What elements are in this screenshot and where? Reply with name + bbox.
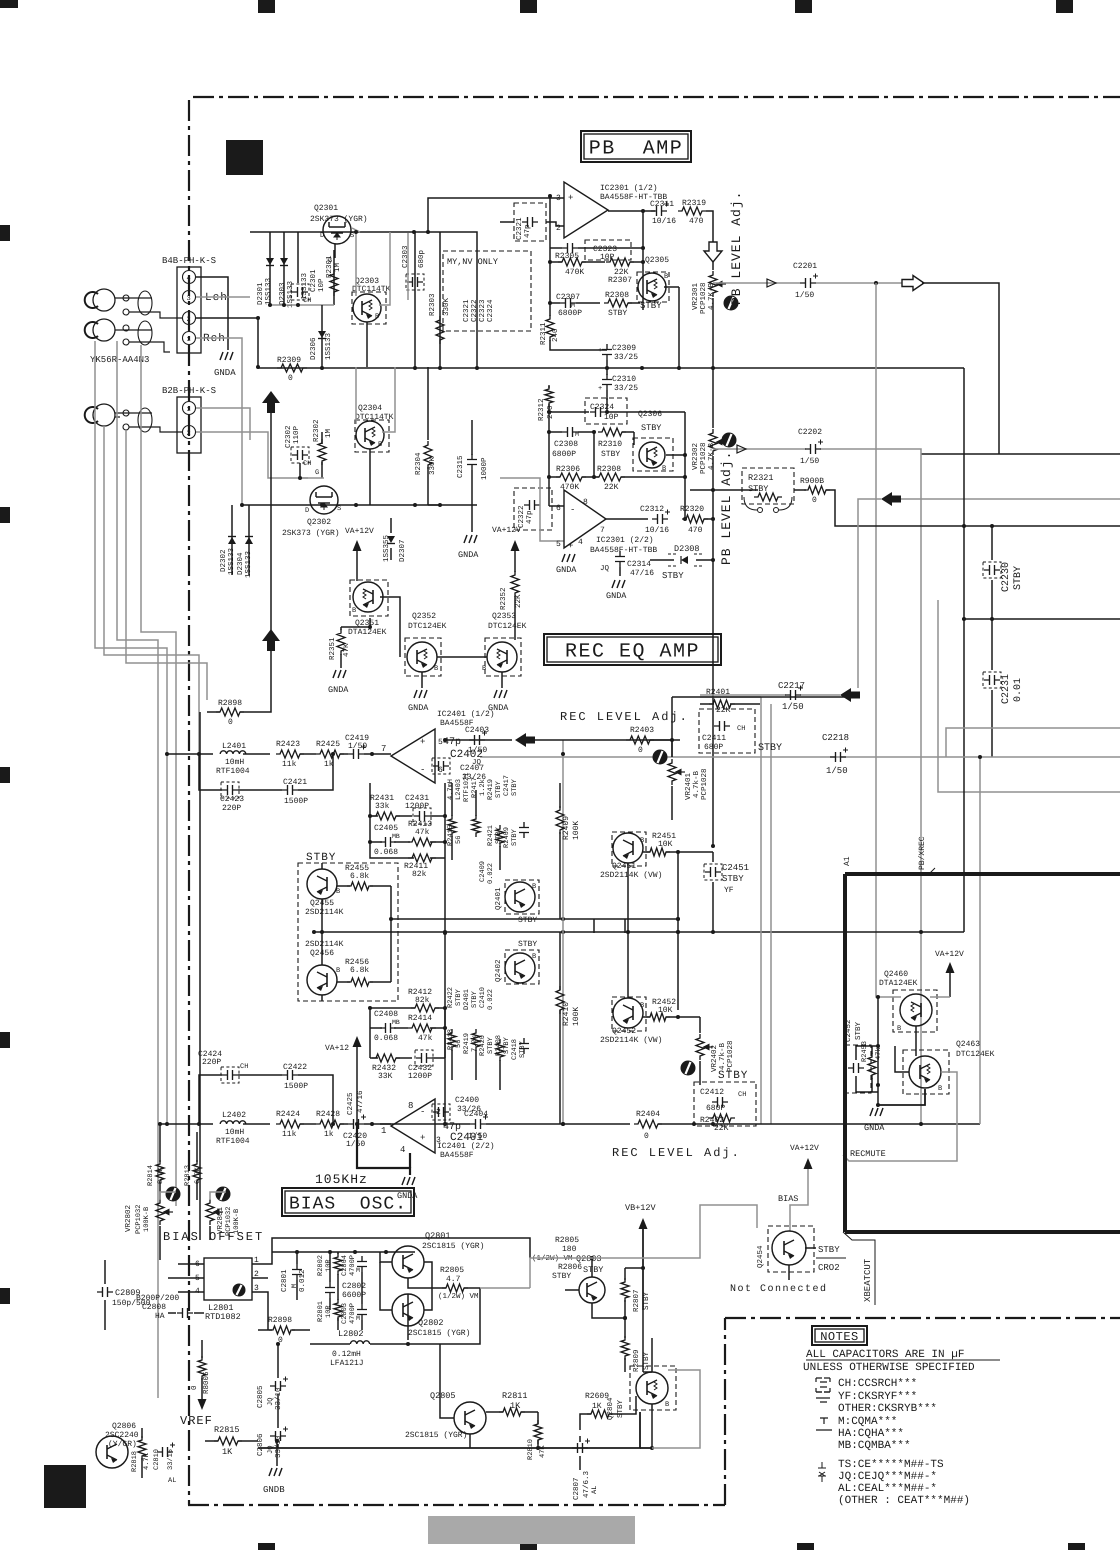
- svg-text:1SS133: 1SS133: [300, 272, 309, 300]
- svg-text:1SS133: 1SS133: [324, 332, 333, 360]
- svg-text:AL: AL: [591, 1486, 599, 1494]
- svg-text:JQ: JQ: [472, 758, 482, 767]
- wire stby pair: [321, 899, 323, 965]
- wire q2463: [915, 1026, 917, 1056]
- svg-text:47K: 47K: [539, 1445, 547, 1458]
- title box REC EQ AMP: [544, 634, 721, 665]
- svg-text:Q2805: Q2805: [430, 1391, 456, 1401]
- svg-text:Not Connected: Not Connected: [730, 1283, 828, 1295]
- svg-text:1/50: 1/50: [348, 742, 367, 751]
- gray footer bar: [428, 1516, 635, 1544]
- svg-text:0.01: 0.01: [1013, 678, 1024, 702]
- ground GNDB: [276, 1448, 278, 1466]
- transistor Q2804: [636, 1372, 668, 1404]
- svg-text:0: 0: [812, 496, 817, 505]
- svg-text:R2805: R2805: [440, 1266, 464, 1275]
- svg-text:VR2401: VR2401: [684, 772, 693, 800]
- svg-text:R2403: R2403: [630, 726, 654, 735]
- svg-text:C2807: C2807: [572, 1477, 581, 1500]
- svg-text:JQ: JQ: [267, 1398, 275, 1406]
- pot VR2802: [156, 1199, 164, 1225]
- svg-text:C2315: C2315: [456, 455, 465, 478]
- svg-text:Q2803: Q2803: [576, 1254, 602, 1264]
- svg-text:STBY: STBY: [511, 828, 519, 846]
- svg-text:C2322: C2322: [470, 299, 479, 322]
- svg-text:B: B: [897, 1025, 901, 1033]
- svg-text:Q2451: Q2451: [612, 862, 636, 871]
- transistor Q2463: [909, 1056, 941, 1088]
- adjust L2801: [233, 1284, 246, 1297]
- svg-text:R900B: R900B: [800, 477, 824, 486]
- svg-text:+: +: [420, 737, 425, 747]
- svg-text:33K: 33K: [378, 1072, 393, 1081]
- wire opamp out: [608, 210, 655, 212]
- svg-text:B: B: [662, 465, 666, 473]
- svg-text:R2302: R2302: [312, 419, 321, 442]
- svg-text:CRO2: CRO2: [818, 1263, 840, 1273]
- wire opamp minus: [546, 222, 564, 226]
- svg-text:PB/XREC: PB/XREC: [918, 836, 927, 870]
- wire fb bus: [369, 783, 371, 855]
- svg-text:0.068: 0.068: [374, 848, 398, 857]
- wire l2801 pins: [178, 1263, 204, 1265]
- pot VR2301: [712, 262, 714, 270]
- svg-text:10/16: 10/16: [652, 217, 676, 226]
- svg-text:R2303: R2303: [428, 293, 437, 316]
- svg-text:PB LEVEL Adj.: PB LEVEL Adj.: [719, 451, 734, 565]
- svg-text:56: 56: [455, 836, 463, 844]
- svg-text:STBY: STBY: [552, 1272, 571, 1281]
- svg-text:R2813: R2813: [184, 1165, 192, 1186]
- cap C2201: [800, 278, 816, 288]
- svg-text:R2810: R2810: [527, 1439, 535, 1460]
- diode D2301: [269, 232, 271, 305]
- cap C2403: [469, 735, 485, 745]
- resistor R2302: [318, 439, 326, 465]
- svg-text:PCP1028: PCP1028: [700, 768, 709, 800]
- wire C2404 row: [380, 1123, 470, 1125]
- svg-text:R2410: R2410: [562, 1002, 571, 1026]
- registration mark bottom 3: [797, 1543, 814, 1550]
- box MY NV ONLY: [443, 251, 531, 331]
- svg-text:220P: 220P: [202, 1058, 221, 1067]
- svg-text:10K: 10K: [658, 840, 673, 849]
- svg-text:CH: CH: [737, 725, 745, 733]
- resistor R2411: [408, 854, 436, 862]
- rot stack res upper: [448, 815, 456, 837]
- svg-text:+: +: [598, 347, 602, 355]
- svg-text:R2814: R2814: [147, 1165, 155, 1186]
- svg-text:GNDA: GNDA: [408, 703, 429, 713]
- svg-text:R2309: R2309: [277, 356, 301, 365]
- svg-text:STBY: STBY: [616, 1399, 625, 1418]
- svg-text:B: B: [378, 441, 382, 449]
- resistor R2319: [678, 207, 706, 215]
- pot VR2401: [668, 759, 676, 785]
- resistor R2310: [598, 428, 626, 436]
- svg-text:M:CQMA***: M:CQMA***: [838, 1416, 897, 1428]
- svg-text:DTC124EK: DTC124EK: [408, 622, 447, 631]
- svg-text:2: 2: [556, 224, 561, 233]
- svg-text:C2805: C2805: [256, 1385, 265, 1408]
- svg-text:B: B: [640, 837, 644, 845]
- svg-text:L2802: L2802: [338, 1329, 364, 1339]
- wire C2202 row: [713, 448, 806, 450]
- svg-text:4.7k-B: 4.7k-B: [718, 1042, 727, 1070]
- svg-text:Q2801: Q2801: [425, 1231, 451, 1241]
- resistor R2311: [549, 310, 551, 316]
- svg-text:1M: 1M: [334, 262, 342, 272]
- diode D2303: [283, 232, 285, 305]
- svg-text:D2302: D2302: [219, 549, 228, 572]
- wire C2403 row: [445, 739, 512, 741]
- svg-text:R2421: R2421: [487, 825, 495, 846]
- svg-text:C2310: C2310: [612, 375, 636, 384]
- wire feedback bundle 2: [117, 341, 158, 1398]
- ground GNDA connector: [220, 352, 233, 360]
- inductor L2402: [220, 1121, 246, 1124]
- resistor R8005: [198, 1356, 206, 1380]
- svg-text:GNDA: GNDA: [328, 685, 349, 695]
- svg-text:C2324: C2324: [486, 299, 495, 322]
- pin 1: [183, 332, 196, 345]
- svg-text:MB: MB: [392, 1019, 400, 1026]
- wire L2402 row: [158, 1123, 213, 1125]
- svg-text:BA4558F: BA4558F: [440, 1151, 474, 1160]
- svg-text:M: M: [356, 1315, 360, 1322]
- svg-text:HA:CQHA***: HA:CQHA***: [838, 1428, 904, 1440]
- svg-text:B: B: [532, 883, 536, 891]
- transistor Q2806: [96, 1436, 128, 1468]
- wire fb col x549: [548, 404, 550, 506]
- svg-text:1/50: 1/50: [826, 766, 848, 776]
- box C2411: [699, 709, 755, 753]
- wire gate row: [270, 304, 334, 306]
- svg-text:R2806: R2806: [558, 1263, 582, 1272]
- resistor R2425: [300, 753, 316, 755]
- junction 526: [962, 524, 966, 528]
- jack lower: [93, 404, 115, 426]
- adjust VR2401: [653, 750, 668, 765]
- svg-text:R2320: R2320: [680, 505, 704, 514]
- svg-text:CH:CCSRCH***: CH:CCSRCH***: [838, 1378, 917, 1390]
- svg-text:10/16: 10/16: [645, 526, 669, 535]
- svg-text:STBY: STBY: [583, 1265, 603, 1275]
- wire op2 gnd: [357, 1124, 410, 1175]
- wire pin B2B-2: [196, 432, 308, 478]
- wire row 368: [320, 367, 964, 369]
- svg-text:47p: 47p: [524, 224, 532, 238]
- svg-text:R2811: R2811: [502, 1391, 528, 1401]
- svg-text:UNLESS OTHERWISE SPECIFIED: UNLESS OTHERWISE SPECIFIED: [803, 1362, 975, 1374]
- svg-text:R2305: R2305: [555, 252, 579, 261]
- transistor Q2452: [613, 998, 643, 1028]
- wire L2401 row: [167, 753, 213, 755]
- svg-text:C2408: C2408: [374, 1010, 398, 1019]
- svg-text:R2898: R2898: [218, 699, 242, 708]
- svg-text:33k: 33k: [375, 802, 390, 811]
- svg-text:R2311: R2311: [539, 322, 548, 345]
- resistor R2898b: [269, 1326, 295, 1334]
- svg-text:C2451: C2451: [722, 863, 749, 873]
- registration mark left 3: [0, 767, 10, 783]
- jack Lch: [85, 289, 115, 311]
- resistor R2404: [634, 1120, 662, 1128]
- svg-text:C2803: C2803: [341, 1303, 349, 1324]
- svg-text:0: 0: [288, 374, 293, 383]
- wire q2454: [788, 1265, 790, 1280]
- svg-text:4.7mH: 4.7mH: [447, 779, 455, 800]
- svg-text:R2809: R2809: [632, 1349, 641, 1372]
- resistor R2453: [868, 1053, 876, 1079]
- resistor R2403: [626, 736, 654, 744]
- svg-text:1/50: 1/50: [795, 291, 814, 300]
- transistor Q2352: [407, 642, 437, 672]
- svg-text:D2401: D2401: [463, 989, 471, 1010]
- ground q2463: [870, 1108, 883, 1116]
- box STBY pair: [298, 863, 398, 1001]
- svg-text:BIAS OFFSET: BIAS OFFSET: [163, 1230, 264, 1244]
- svg-text:R2424: R2424: [276, 1110, 300, 1119]
- svg-text:M: M: [291, 1284, 299, 1288]
- svg-text:1: 1: [381, 1126, 386, 1136]
- svg-text:C2804: C2804: [341, 1255, 349, 1276]
- svg-text:B: B: [375, 313, 379, 321]
- wire fb bus lower: [369, 1008, 371, 1058]
- svg-text:2SD2114K (VW): 2SD2114K (VW): [600, 871, 662, 880]
- transistor Q2304: [356, 421, 384, 449]
- svg-text:R2306: R2306: [556, 465, 580, 474]
- svg-text:R2312: R2312: [537, 398, 546, 421]
- rot stack res lower: [448, 1029, 456, 1051]
- svg-text:R2352: R2352: [499, 587, 508, 610]
- adjust VR2302: [722, 433, 737, 448]
- svg-text:TS:CE*****M##-TS: TS:CE*****M##-TS: [838, 1459, 944, 1471]
- wire arrow row 499: [900, 498, 1120, 500]
- svg-text:STBY: STBY: [471, 990, 479, 1008]
- svg-text:JQ: JQ: [600, 564, 610, 573]
- svg-text:4.7K-B: 4.7K-B: [708, 282, 716, 310]
- svg-text:D2306: D2306: [309, 337, 318, 360]
- wire trunk x964: [963, 368, 965, 932]
- svg-text:A1: A1: [843, 856, 852, 866]
- transistor Q2803: [579, 1277, 605, 1303]
- wire q2352-q2353: [437, 656, 487, 658]
- wire q2802 col: [424, 1262, 432, 1310]
- svg-text:Q2301: Q2301: [314, 204, 338, 213]
- svg-text:STBY: STBY: [718, 1070, 748, 1082]
- svg-text:STBY: STBY: [641, 423, 661, 433]
- svg-text:Q2802: Q2802: [418, 1318, 444, 1328]
- wire row 505: [242, 504, 477, 506]
- wire R2321 row: [690, 489, 758, 491]
- resistor R2309b: [604, 299, 632, 307]
- svg-text:STBY: STBY: [748, 484, 768, 494]
- svg-text:150p/500: 150p/500: [112, 1299, 151, 1308]
- diode D2304: [248, 505, 250, 575]
- wire mid gray verticals: [760, 697, 762, 1124]
- svg-text:JQ: JQ: [267, 1446, 275, 1454]
- black arrow up 2: [262, 391, 280, 413]
- svg-text:B: B: [664, 273, 668, 281]
- svg-text:47k: 47k: [415, 828, 430, 837]
- svg-text:10mH: 10mH: [225, 1128, 244, 1137]
- cap C2301: [297, 232, 299, 283]
- cap C2324 box: [585, 398, 627, 424]
- ground q2352: [421, 672, 423, 688]
- svg-text:DTA124EK: DTA124EK: [879, 979, 918, 988]
- svg-text:C2201: C2201: [793, 262, 817, 271]
- svg-text:2SC1815 (YGR): 2SC1815 (YGR): [408, 1329, 470, 1338]
- svg-text:Q2302: Q2302: [307, 518, 331, 527]
- cap C2310: [606, 368, 608, 375]
- cap C2420: [340, 1123, 348, 1125]
- svg-text:3: 3: [187, 295, 191, 303]
- registration mark top-left: [0, 0, 18, 8]
- svg-text:6: 6: [556, 504, 561, 513]
- svg-text:0: 0: [638, 746, 643, 755]
- transistor Q2402: [505, 953, 535, 983]
- cap C2202: [805, 444, 821, 454]
- svg-text:DTA124EK: DTA124EK: [348, 628, 387, 637]
- svg-text:S: S: [350, 232, 354, 240]
- svg-text:1200P: 1200P: [408, 1072, 432, 1081]
- wire q2804 col: [651, 1338, 653, 1372]
- wire rail 932: [314, 931, 964, 933]
- svg-text:C2321: C2321: [515, 217, 524, 240]
- svg-text:Q2454: Q2454: [756, 1245, 765, 1268]
- wire jack lower: [115, 413, 182, 432]
- pin B2B-1: [183, 402, 196, 415]
- svg-text:REC LEVEL Adj.: REC LEVEL Adj.: [612, 1146, 741, 1160]
- svg-text:Q2402: Q2402: [494, 959, 503, 982]
- svg-text:10R: 10R: [325, 1305, 333, 1318]
- svg-text:+: +: [568, 541, 573, 551]
- svg-text:Q2305: Q2305: [645, 256, 669, 265]
- svg-text:REC LEVEL Adj.: REC LEVEL Adj.: [560, 710, 689, 724]
- svg-text:VR2802: VR2802: [124, 1205, 133, 1232]
- open arrow down: [704, 242, 722, 262]
- svg-text:VR2301: VR2301: [691, 282, 700, 310]
- svg-text:470K: 470K: [565, 268, 584, 277]
- registration mark top 1: [258, 0, 275, 13]
- svg-text:10K: 10K: [658, 1006, 673, 1015]
- wire q2451 col: [677, 852, 679, 1010]
- svg-text:R2321: R2321: [748, 473, 774, 483]
- svg-text:680P: 680P: [704, 743, 723, 752]
- wire Q2301 gate: [333, 250, 335, 258]
- svg-text:YF: YF: [724, 886, 734, 895]
- svg-text:STBY: STBY: [518, 916, 537, 925]
- svg-text:STBY: STBY: [854, 1021, 863, 1040]
- svg-text:C2302: C2302: [284, 425, 293, 448]
- registration mark top 2: [520, 0, 537, 13]
- transistor Q2460: [900, 994, 932, 1026]
- cap C2321 dashed: [514, 203, 546, 241]
- svg-text:DTC114TK: DTC114TK: [355, 413, 394, 422]
- svg-text:STBY: STBY: [608, 309, 627, 318]
- svg-text:1/50: 1/50: [468, 1132, 487, 1141]
- svg-text:B4B-PH-K-S: B4B-PH-K-S: [162, 256, 216, 266]
- jack Rch: [85, 319, 115, 341]
- svg-text:6800P: 6800P: [552, 450, 576, 459]
- black arrow up 1: [262, 629, 280, 651]
- svg-text:NOTES: NOTES: [820, 1330, 859, 1344]
- diode D2306: [321, 305, 323, 368]
- registration square bottom-left: [44, 1465, 86, 1508]
- ic L2801 box: [204, 1258, 252, 1300]
- registration mark left 1: [0, 225, 10, 241]
- registration mark top 4: [1056, 0, 1073, 13]
- svg-text:2SC1815 (YGR): 2SC1815 (YGR): [405, 1431, 467, 1440]
- svg-text:VA+12: VA+12: [325, 1044, 349, 1053]
- svg-text:4.7K: 4.7K: [143, 1452, 151, 1470]
- transistor Q2303: [353, 294, 381, 322]
- svg-text:220P: 220P: [222, 804, 241, 813]
- wire q2805 row: [470, 1412, 640, 1448]
- wire rail 919: [391, 918, 678, 920]
- svg-text:2SD2114K: 2SD2114K: [305, 908, 344, 917]
- transistor Q2353: [487, 642, 517, 672]
- svg-text:1000P: 1000P: [480, 457, 489, 480]
- svg-text:C2404: C2404: [464, 1110, 488, 1119]
- wire left vertical black: [199, 712, 201, 1240]
- resistor R2424: [243, 1123, 270, 1125]
- svg-text:C2423: C2423: [220, 795, 244, 804]
- svg-text:2: 2: [187, 316, 191, 324]
- svg-text:10P: 10P: [604, 413, 619, 422]
- svg-text:STBY: STBY: [518, 940, 537, 949]
- wire c2424 loop: [199, 1075, 222, 1124]
- svg-text:1/50: 1/50: [346, 1140, 365, 1149]
- svg-text:M: M: [356, 1267, 360, 1274]
- cap C2419: [340, 753, 348, 755]
- svg-text:110P: 110P: [292, 425, 301, 444]
- svg-text:C2231: C2231: [1001, 674, 1012, 704]
- svg-text:1k: 1k: [324, 1130, 334, 1139]
- svg-text:PCP1028: PCP1028: [699, 282, 708, 314]
- svg-text:0.12mH: 0.12mH: [332, 1350, 361, 1359]
- pin 3: [183, 291, 196, 304]
- svg-text:10R: 10R: [325, 1259, 333, 1272]
- svg-text:R2805: R2805: [555, 1236, 579, 1245]
- wire pin4 to GNDA: [196, 277, 228, 350]
- cap C2424: [222, 1070, 238, 1080]
- svg-text:C2806: C2806: [256, 1433, 265, 1456]
- svg-text:Q2353: Q2353: [492, 612, 516, 621]
- svg-text:47/16: 47/16: [356, 1090, 365, 1113]
- svg-text:6800P: 6800P: [558, 309, 582, 318]
- svg-text:GNDA: GNDA: [606, 591, 627, 601]
- svg-text:R2428: R2428: [316, 1110, 340, 1119]
- svg-text:VB+12V: VB+12V: [625, 1203, 657, 1213]
- transistor Q2401: [505, 882, 535, 912]
- svg-text:22K: 22K: [716, 706, 731, 715]
- svg-text:+: +: [420, 1133, 425, 1143]
- svg-text:47/16: 47/16: [630, 569, 654, 578]
- svg-text:C2314: C2314: [627, 560, 651, 569]
- wire Q2303: [355, 232, 357, 296]
- transistor Q2454: [772, 1231, 806, 1265]
- svg-text:0.022: 0.022: [487, 863, 495, 884]
- svg-text:STBY: STBY: [511, 778, 519, 796]
- svg-text:1K: 1K: [592, 1402, 602, 1411]
- svg-text:AL:CEAL***M##-*: AL:CEAL***M##-*: [838, 1483, 937, 1495]
- svg-text:R2308: R2308: [597, 465, 621, 474]
- svg-text:47k: 47k: [874, 1047, 883, 1060]
- svg-text:C2421: C2421: [283, 778, 307, 787]
- feedback C2323: [585, 240, 631, 260]
